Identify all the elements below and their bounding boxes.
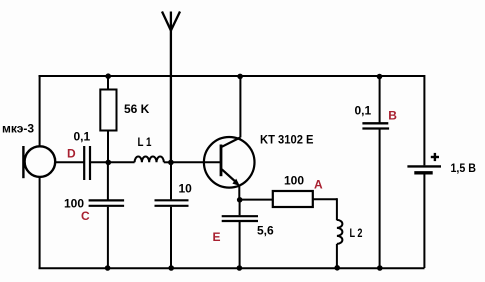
svg-text:0,1: 0,1 bbox=[74, 130, 91, 144]
node emitter junction dot bbox=[237, 197, 243, 203]
microphone мкэ-3 bbox=[23, 146, 55, 178]
svg-text:1,5 В: 1,5 В bbox=[451, 161, 477, 175]
wire left vertical below microphone bbox=[39, 177, 41, 268]
wire emitter junction to resistor 100 bbox=[240, 199, 273, 201]
wire microphone output bbox=[55, 161, 84, 163]
wire left vertical above microphone bbox=[39, 75, 41, 147]
node ground junction dot cap 5,6 branch bbox=[237, 265, 243, 271]
wire collector to top rail bbox=[239, 76, 241, 137]
wire corner down to inductor L2 bbox=[336, 198, 338, 220]
node top rail junction dot bbox=[105, 73, 111, 79]
svg-text:L 2: L 2 bbox=[350, 226, 363, 240]
antenna bbox=[162, 12, 180, 163]
wire capacitor 100 to ground rail bbox=[107, 207, 109, 268]
svg-text:100: 100 bbox=[284, 174, 304, 188]
node ground junction dot C branch bbox=[105, 265, 111, 271]
svg-text:KT 3102 E: KT 3102 E bbox=[260, 133, 314, 147]
wire inductor L1 to antenna node bbox=[164, 161, 171, 163]
wire capacitor 5,6 to ground rail bbox=[239, 222, 241, 268]
node ground junction dot B branch bbox=[377, 265, 383, 271]
wire resistor 56K to node bbox=[107, 131, 109, 163]
svg-text:5,6: 5,6 bbox=[257, 224, 274, 238]
wire bottom ground rail bbox=[39, 267, 425, 269]
resistor 56K bbox=[100, 90, 116, 131]
wire top rail to capacitor 0,1 B bbox=[379, 76, 381, 123]
node base junction dot bbox=[106, 160, 112, 166]
wire resistor 100 to corner bbox=[313, 198, 337, 200]
svg-text:C: C bbox=[81, 209, 90, 223]
battery 1,5 В bbox=[407, 166, 441, 172]
wire base of transistor bbox=[171, 161, 220, 163]
wire top rail right corner to battery bbox=[423, 75, 425, 165]
svg-text:L 1: L 1 bbox=[138, 135, 152, 149]
node top rail junction dot collector bbox=[237, 74, 243, 80]
node top rail junction dot B branch bbox=[377, 74, 383, 80]
transistor Q1 KT 3102 E bbox=[204, 137, 255, 188]
svg-text:E: E bbox=[213, 230, 221, 244]
wire emitter to junction bbox=[238, 186, 240, 201]
wire inductor L2 to ground rail bbox=[336, 244, 338, 268]
wire capacitor D to node bbox=[91, 161, 108, 163]
capacitor 0,1 (B) bbox=[362, 123, 389, 128]
capacitor 10 bbox=[155, 200, 189, 206]
capacitor 0,1 (D) bbox=[84, 146, 90, 180]
wire emitter junction to capacitor 5,6 bbox=[239, 200, 241, 215]
svg-text:B: B bbox=[388, 109, 397, 123]
node ground junction dot cap10 branch bbox=[168, 265, 174, 271]
wire battery to bottom rail bbox=[423, 175, 425, 269]
svg-text:0,1: 0,1 bbox=[355, 104, 372, 118]
wire node to inductor L1 bbox=[108, 161, 135, 163]
wire antenna node to capacitor 10 bbox=[170, 162, 172, 199]
battery plus sign bbox=[431, 153, 439, 161]
wire node to capacitor 100 bbox=[107, 162, 109, 200]
svg-text:A: A bbox=[314, 178, 323, 192]
wire top rail to resistor 56K bbox=[107, 76, 109, 90]
node ground junction dot L2 branch bbox=[334, 265, 340, 271]
inductor L1 bbox=[135, 157, 164, 163]
node antenna junction dot bbox=[168, 160, 174, 166]
capacitor 5,6 (E) bbox=[222, 216, 258, 221]
svg-text:10: 10 bbox=[179, 182, 193, 196]
wire capacitor B to ground rail bbox=[379, 130, 381, 269]
capacitor 100 (C) bbox=[89, 200, 125, 205]
inductor L2 bbox=[337, 220, 343, 244]
svg-text:D: D bbox=[67, 147, 76, 161]
resistor 100 (A) bbox=[273, 191, 313, 207]
wire capacitor 10 to ground rail bbox=[170, 207, 172, 268]
wire top supply rail bbox=[39, 75, 425, 77]
svg-text:56 K: 56 K bbox=[124, 102, 150, 116]
svg-text:мкэ-3: мкэ-3 bbox=[2, 122, 34, 136]
